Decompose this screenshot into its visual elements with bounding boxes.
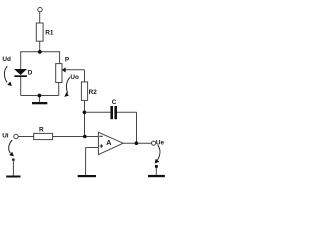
svg-text:Uo: Uo: [70, 74, 79, 81]
svg-text:Ue: Ue: [156, 140, 165, 147]
svg-text:R: R: [39, 127, 44, 134]
svg-text:Ui: Ui: [2, 133, 9, 140]
svg-text:A: A: [106, 138, 112, 147]
svg-text:D: D: [28, 70, 33, 77]
svg-text:R2: R2: [89, 89, 98, 96]
svg-text:R1: R1: [45, 30, 54, 37]
svg-text:Ud: Ud: [2, 56, 11, 63]
svg-text:P: P: [65, 57, 70, 64]
svg-text:C: C: [112, 99, 117, 106]
